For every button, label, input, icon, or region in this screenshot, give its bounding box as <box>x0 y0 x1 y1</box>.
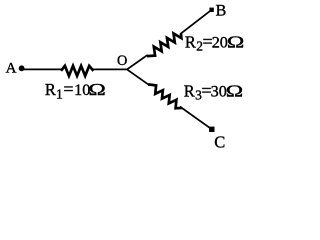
resistor R3 <box>148 84 181 108</box>
svg-text:Ω: Ω <box>88 81 105 99</box>
svg-text:20: 20 <box>212 33 228 51</box>
svg-text:Ω: Ω <box>226 82 243 100</box>
resistor R2 <box>147 34 181 57</box>
node B dot <box>209 8 213 12</box>
svg-text:R: R <box>184 82 195 101</box>
wire A to R1 <box>22 68 62 70</box>
wire R2 to B <box>180 10 211 34</box>
svg-text:1: 1 <box>56 86 63 101</box>
svg-text:Ω: Ω <box>227 33 244 51</box>
svg-text:O: O <box>117 53 127 69</box>
svg-text:B: B <box>216 3 227 20</box>
svg-text:A: A <box>6 61 17 77</box>
svg-text:30: 30 <box>211 83 227 101</box>
resistor R1 <box>61 66 94 76</box>
svg-text:R: R <box>45 80 56 99</box>
wire O to R2 <box>127 55 148 69</box>
node A dot <box>19 65 25 71</box>
wire R1 to O <box>93 68 128 70</box>
svg-text:C: C <box>214 132 225 150</box>
svg-text:=: = <box>63 79 73 99</box>
wire R3 to C <box>180 107 212 130</box>
wire O to R3 <box>127 69 150 85</box>
node C dot <box>209 127 214 132</box>
svg-text:R: R <box>185 32 196 51</box>
